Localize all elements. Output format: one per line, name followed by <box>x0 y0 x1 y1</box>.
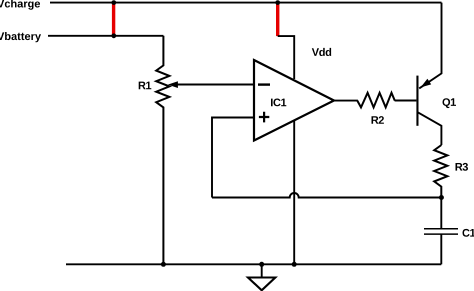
capacitor C1 top plate <box>424 228 458 230</box>
wire R2 to Q1 base <box>395 100 417 102</box>
ground symbol <box>261 264 263 277</box>
wire Vcharge top rail <box>50 2 442 4</box>
op-amp IC1 plus sign <box>259 112 269 123</box>
transistor Q1 label <box>443 98 457 108</box>
wire red Vdd supply drop <box>276 3 279 37</box>
capacitor C1 label <box>463 229 474 237</box>
junction dot at Vcharge/red link <box>111 0 116 5</box>
resistor R1 (potentiometer body) <box>156 36 169 264</box>
wire R1 wiper to op-amp inverting input <box>178 84 255 86</box>
transistor Q1 base bar <box>416 76 418 126</box>
op-amp IC1 label <box>271 99 286 107</box>
junction dot feedback to R3/C1 node <box>439 195 444 200</box>
node Vcharge label <box>0 0 40 10</box>
wire R3/C1 node down to capacitor <box>440 198 442 229</box>
resistor R1 label <box>139 82 152 90</box>
transistor Q1 emitter (top, from Vcharge) <box>419 3 441 89</box>
op-amp IC1 minus sign <box>258 83 270 85</box>
wire op-amp output to R2 <box>334 100 358 102</box>
junction dot R1 at ground rail <box>161 262 166 267</box>
junction dot op-amp V- pin at rail <box>292 262 297 267</box>
wire red link Vcharge-to-Vbattery <box>112 3 115 36</box>
junction dot at Vbattery/red link <box>111 33 116 38</box>
wire non-inverting input feedback (left leg) <box>212 118 254 198</box>
wire Vbattery rail <box>48 35 163 37</box>
node Vbattery label <box>0 32 41 42</box>
wire feedback bottom run with hop over V- pin <box>212 193 442 198</box>
resistor R2 label <box>372 116 384 124</box>
wire C1 bottom to ground rail <box>440 234 442 264</box>
wire op-amp V- pin to ground rail <box>293 121 295 265</box>
junction dot at Vcharge/Vdd drop <box>275 0 280 5</box>
capacitor C1 bottom plate <box>424 233 458 235</box>
resistor R2 <box>357 93 395 108</box>
resistor R3 label <box>456 163 469 171</box>
node Vdd label <box>312 48 331 56</box>
wire ground rail <box>66 263 441 265</box>
wire Vdd jog to op-amp supply pin <box>278 36 295 79</box>
op-amp IC1 triangle <box>254 60 334 141</box>
resistor R3 <box>434 145 447 198</box>
transistor Q1 collector (bottom) <box>418 112 441 145</box>
transistor Q1 emitter arrowhead <box>421 79 432 88</box>
junction dot ground symbol at rail <box>259 262 264 267</box>
R1 wiper arrowhead <box>168 81 178 88</box>
